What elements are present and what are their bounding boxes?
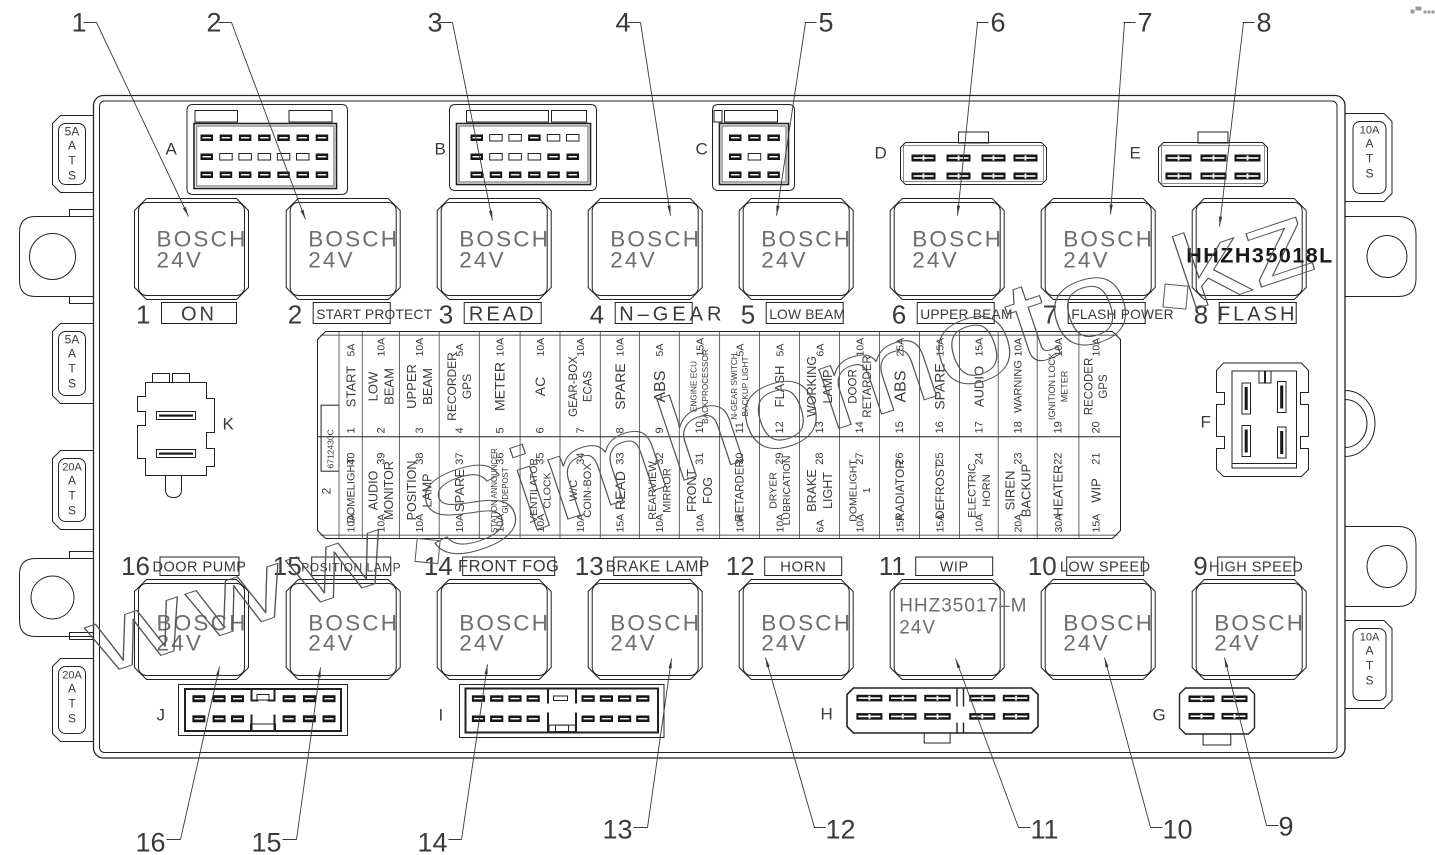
relay 9 BOSCH 24V (bottom row) — [1192, 580, 1306, 680]
relay 12 number and name box — [765, 557, 842, 576]
svg-text:24V: 24V — [459, 248, 506, 273]
right edge half-round bump — [1345, 391, 1375, 457]
svg-text:HORN: HORN — [981, 474, 993, 506]
svg-text:BEAM: BEAM — [420, 368, 435, 405]
svg-text:5A: 5A — [65, 333, 80, 347]
svg-text:15A: 15A — [694, 338, 706, 357]
svg-text:15A: 15A — [934, 514, 946, 533]
svg-text:13: 13 — [602, 815, 632, 845]
svg-text:5A: 5A — [454, 344, 466, 357]
relay 11 BOSCH 24V (bottom row) — [890, 580, 1004, 680]
svg-text:A: A — [68, 139, 76, 153]
svg-text:16: 16 — [934, 421, 946, 433]
relay 7 number and name box — [1068, 303, 1145, 324]
svg-text:RECORDER: RECORDER — [445, 352, 459, 421]
fuse strip middle divider — [318, 436, 1121, 438]
svg-text:T: T — [68, 154, 76, 168]
svg-text:A: A — [166, 140, 178, 159]
relay 16 BOSCH 24V (bottom row) — [135, 580, 249, 680]
svg-text:39: 39 — [375, 453, 387, 465]
svg-text:LOW: LOW — [365, 371, 380, 401]
relay 3 BOSCH 24V (top row) — [437, 199, 551, 300]
svg-text:WIP: WIP — [940, 560, 969, 576]
svg-text:10A: 10A — [376, 338, 388, 357]
svg-text:24V: 24V — [1214, 631, 1261, 656]
svg-text:S: S — [68, 377, 76, 391]
svg-text:ON: ON — [181, 304, 217, 326]
svg-text:4: 4 — [454, 427, 466, 433]
svg-text:D: D — [875, 144, 887, 163]
svg-text:24V: 24V — [308, 631, 355, 656]
svg-text:B: B — [435, 140, 446, 159]
svg-text:24V: 24V — [610, 631, 657, 656]
svg-text:10: 10 — [1163, 815, 1193, 845]
svg-text:7: 7 — [1138, 8, 1153, 38]
svg-text:27: 27 — [854, 453, 866, 465]
right mounting ear (top) with hole — [1345, 217, 1416, 297]
svg-text:DOMELIGHT: DOMELIGHT — [847, 459, 859, 522]
svg-text:20A: 20A — [1013, 514, 1025, 533]
svg-text:START: START — [343, 366, 358, 407]
relay 2 number and name box — [313, 303, 390, 324]
svg-text:GPS: GPS — [1098, 374, 1110, 399]
svg-text:4: 4 — [590, 300, 604, 330]
svg-text:21: 21 — [1090, 453, 1102, 465]
svg-text:6A: 6A — [814, 520, 826, 533]
svg-text:RADIATOR: RADIATOR — [893, 460, 907, 521]
svg-text:30A: 30A — [1053, 514, 1065, 533]
relay 2 BOSCH 24V (top row) — [286, 199, 400, 300]
left tab 5A ATS (second) — [53, 324, 94, 404]
svg-text:20: 20 — [1090, 421, 1102, 433]
fuse strip column dividers — [338, 332, 340, 539]
relay 3 number and name box — [464, 303, 541, 324]
left edge notch above bottom ear — [70, 552, 94, 559]
svg-text:READ: READ — [469, 304, 537, 326]
relay 5 number and name box — [766, 303, 843, 324]
fuse strip part number label 6712430C — [321, 405, 339, 471]
svg-text:22: 22 — [1053, 453, 1065, 465]
svg-text:8: 8 — [1257, 8, 1272, 38]
svg-text:11: 11 — [1031, 815, 1059, 845]
svg-text:10A: 10A — [1360, 125, 1380, 137]
connector E — [1198, 132, 1228, 143]
svg-text:24V: 24V — [912, 248, 959, 273]
svg-text:17: 17 — [973, 421, 985, 433]
svg-text:9: 9 — [1193, 551, 1207, 581]
right mounting ear (bottom) with hole — [1345, 527, 1416, 607]
svg-text:1: 1 — [345, 427, 357, 433]
svg-text:24V: 24V — [459, 631, 506, 656]
svg-text:5A: 5A — [65, 125, 80, 139]
svg-text:24V: 24V — [1063, 631, 1110, 656]
left mounting ear (bottom) with hole — [20, 559, 94, 637]
corner marks top-right — [1411, 7, 1435, 14]
relay 5 BOSCH 24V (top row) — [739, 199, 853, 300]
svg-text:12: 12 — [726, 551, 755, 581]
svg-text:METER: METER — [492, 362, 508, 411]
svg-text:10A: 10A — [615, 338, 627, 357]
svg-text:11: 11 — [879, 551, 906, 581]
relay 13 number and name box — [614, 557, 702, 576]
svg-text:BRAKE LAMP: BRAKE LAMP — [606, 559, 710, 576]
relay 15 number and name box — [312, 557, 391, 576]
svg-text:26: 26 — [894, 453, 906, 465]
svg-text:10A: 10A — [854, 514, 866, 533]
svg-text:10A: 10A — [774, 514, 786, 533]
svg-text:20A: 20A — [62, 670, 82, 682]
svg-text:5A: 5A — [654, 344, 666, 357]
svg-text:13: 13 — [575, 551, 604, 581]
connector I — [460, 685, 665, 738]
svg-text:HHZ35017–M: HHZ35017–M — [899, 596, 1027, 617]
left mounting ear (top) with hole — [20, 217, 94, 297]
svg-text:2: 2 — [288, 300, 302, 330]
svg-text:24V: 24V — [610, 248, 657, 273]
relay 1 BOSCH 24V (top row) — [135, 199, 249, 300]
svg-text:J: J — [157, 706, 166, 725]
relay 14 BOSCH 24V (bottom row) — [437, 580, 551, 680]
relay 10 BOSCH 24V (bottom row) — [1041, 580, 1155, 680]
svg-text:24V: 24V — [157, 248, 204, 273]
svg-text:G: G — [1153, 706, 1166, 725]
relay 8 BOSCH 24V (top row) — [1192, 199, 1306, 300]
connector F — [1217, 363, 1309, 477]
svg-text:5: 5 — [741, 300, 755, 330]
svg-text:WIP: WIP — [1088, 478, 1103, 503]
svg-text:K: K — [223, 415, 235, 434]
svg-text:S: S — [68, 712, 76, 726]
connector H — [847, 688, 1038, 733]
svg-text:10A: 10A — [495, 338, 507, 357]
svg-text:T: T — [68, 362, 76, 376]
svg-text:LIGHT: LIGHT — [821, 472, 835, 509]
svg-text:GPS: GPS — [460, 374, 474, 399]
relay 13 BOSCH 24V (bottom row) — [588, 580, 702, 680]
svg-text:40: 40 — [345, 453, 357, 465]
svg-text:BACKUP: BACKUP — [1018, 464, 1033, 517]
svg-text:A: A — [1365, 644, 1373, 658]
relay 6 number and name box — [917, 303, 994, 324]
svg-text:10: 10 — [1028, 551, 1057, 581]
relay 8 number and name box — [1219, 303, 1296, 324]
svg-text:1: 1 — [136, 300, 150, 330]
svg-text:10A: 10A — [535, 338, 547, 357]
svg-text:HIGH SPEED: HIGH SPEED — [1209, 560, 1303, 576]
svg-text:E: E — [1130, 144, 1141, 163]
relay 15 BOSCH 24V (bottom row) — [286, 580, 400, 680]
central fuse strip outline — [318, 332, 1121, 539]
relay 9 number and name box — [1218, 557, 1295, 576]
svg-text:DEFROST: DEFROST — [933, 461, 947, 519]
left tab 20A ATS (bottom) — [53, 659, 94, 742]
svg-text:START PROTECT: START PROTECT — [316, 307, 432, 322]
svg-text:10A: 10A — [974, 514, 986, 533]
svg-text:14: 14 — [417, 828, 447, 855]
svg-text:25: 25 — [934, 453, 946, 465]
right tab 10A ATS (top) — [1345, 114, 1392, 202]
svg-text:ECAS: ECAS — [583, 371, 595, 403]
svg-text:T: T — [68, 489, 76, 503]
left edge notch below top ear — [70, 297, 94, 304]
svg-text:UPPER: UPPER — [404, 364, 419, 409]
left edge notch above top ear — [70, 210, 94, 217]
svg-text:6712430C: 6712430C — [326, 429, 336, 468]
svg-text:T: T — [1366, 659, 1374, 673]
svg-text:23: 23 — [1012, 453, 1024, 465]
relay 6 BOSCH 24V (top row) — [890, 199, 1004, 300]
svg-text:15A: 15A — [1091, 514, 1103, 533]
svg-text:10A: 10A — [694, 514, 706, 533]
svg-text:AC: AC — [532, 377, 548, 396]
svg-text:6: 6 — [991, 8, 1006, 38]
relay 4 number and name box — [615, 303, 692, 324]
svg-text:T: T — [1366, 152, 1374, 166]
connector K — [138, 374, 215, 498]
svg-text:T: T — [68, 697, 76, 711]
svg-text:F: F — [1201, 413, 1211, 432]
svg-text:2: 2 — [320, 488, 334, 495]
svg-text:S: S — [1365, 674, 1373, 688]
svg-text:20A: 20A — [62, 462, 82, 474]
relay 4 BOSCH 24V (top row) — [588, 199, 702, 300]
left tab 5A ATS (top) — [53, 116, 94, 193]
svg-text:5: 5 — [819, 8, 834, 38]
svg-text:1: 1 — [861, 487, 873, 493]
svg-text:A: A — [1365, 137, 1373, 151]
svg-text:10A: 10A — [414, 338, 426, 357]
relay 7 BOSCH 24V (top row) — [1041, 199, 1155, 300]
fuse box body outer outline — [94, 96, 1346, 759]
svg-text:24V: 24V — [308, 248, 355, 273]
svg-text:BEAM: BEAM — [382, 368, 397, 405]
connector D — [959, 132, 989, 143]
svg-text:24V: 24V — [761, 631, 808, 656]
svg-text:I: I — [439, 706, 444, 725]
svg-text:10A: 10A — [734, 514, 746, 533]
svg-text:9: 9 — [1279, 812, 1294, 842]
svg-text:24V: 24V — [761, 248, 808, 273]
svg-text:S: S — [1365, 167, 1373, 181]
svg-text:HORN: HORN — [780, 559, 826, 576]
svg-text:SIREN: SIREN — [1002, 471, 1017, 511]
left edge notch below bottom ear — [70, 633, 94, 640]
svg-text:15: 15 — [251, 828, 281, 855]
svg-text:3: 3 — [414, 427, 426, 433]
svg-text:BRAKE: BRAKE — [805, 469, 819, 511]
svg-text:HEATER: HEATER — [1051, 465, 1066, 517]
svg-text:3: 3 — [439, 300, 453, 330]
connector B — [450, 105, 597, 191]
svg-text:S: S — [68, 169, 76, 183]
svg-text:10A: 10A — [1360, 632, 1380, 644]
svg-text:5A: 5A — [345, 344, 357, 357]
svg-text:N–GEAR: N–GEAR — [619, 304, 725, 326]
svg-text:ELECTRIC: ELECTRIC — [967, 463, 979, 517]
relay 11 number and name box — [916, 557, 993, 576]
right tab 10A ATS (bottom) — [1345, 621, 1392, 709]
svg-text:15A: 15A — [894, 514, 906, 533]
left tab 20A ATS (third) — [53, 451, 94, 530]
svg-text:2: 2 — [375, 427, 387, 433]
svg-text:H: H — [821, 705, 833, 724]
svg-text:S: S — [68, 504, 76, 518]
connector C — [713, 105, 795, 191]
watermark www.simhomoto.kz — [66, 167, 1329, 701]
svg-text:10A: 10A — [575, 338, 587, 357]
svg-text:16: 16 — [135, 828, 165, 855]
connector A — [187, 105, 348, 195]
svg-text:12: 12 — [826, 815, 856, 845]
svg-text:19: 19 — [1053, 421, 1065, 433]
svg-text:24: 24 — [973, 453, 985, 465]
svg-text:A: A — [68, 474, 76, 488]
connector G — [1180, 688, 1255, 734]
relay 10 number and name box — [1067, 557, 1144, 576]
relay 14 number and name box — [463, 557, 555, 576]
svg-text:24V: 24V — [899, 618, 936, 639]
connector J — [179, 685, 348, 736]
svg-text:18: 18 — [1012, 421, 1024, 433]
svg-text:A: A — [68, 682, 76, 696]
svg-text:A: A — [68, 347, 76, 361]
fuse box body inner outline — [100, 101, 1338, 753]
relay 16 number and name box — [160, 557, 239, 576]
relay 1 number and name box — [162, 303, 237, 324]
svg-text:LOW SPEED: LOW SPEED — [1060, 560, 1151, 576]
svg-text:C: C — [696, 140, 708, 159]
relay 12 BOSCH 24V (bottom row) — [739, 580, 853, 680]
